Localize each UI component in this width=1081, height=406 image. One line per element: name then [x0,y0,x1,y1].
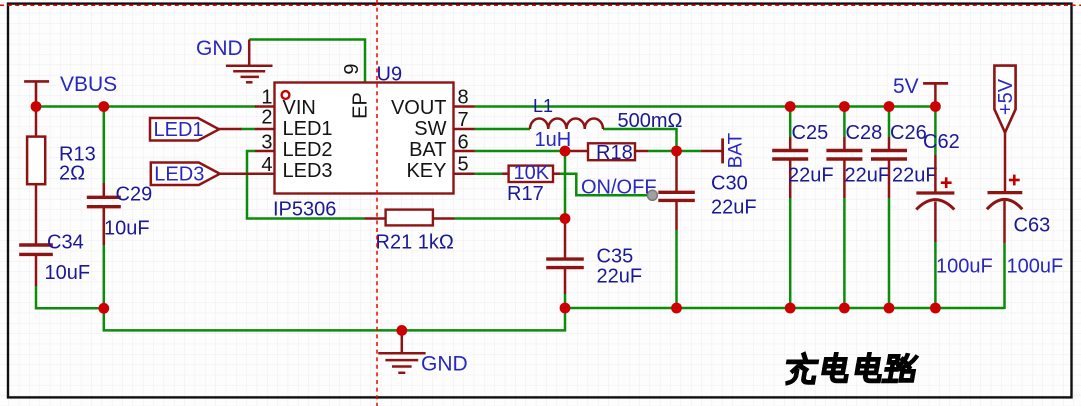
wire BAT node to BAT flag [677,150,702,153]
svg-text:R18: R18 [596,142,633,164]
svg-text:9: 9 [341,63,363,74]
inductor L1 [530,96,603,151]
page boundary dashed line vertical [376,0,378,406]
resistor R17 [502,162,560,205]
node 5V rail C25 [785,101,796,112]
svg-text:22uF: 22uF [788,165,834,187]
svg-text:BAT: BAT [409,139,446,161]
svg-text:C25: C25 [792,122,829,144]
node bus C62 [930,303,941,314]
svg-text:8: 8 [458,87,469,109]
pin 4 stub [255,172,275,175]
node bus C35 [560,303,571,314]
unconnected endpoint ON/OFF [647,190,657,200]
capacitor C29 [87,183,152,245]
pin 3 stub [255,150,275,153]
wire KEY pin to R17 [475,172,503,175]
svg-text:3: 3 [261,132,272,154]
svg-text:GND: GND [421,353,468,376]
wire C26 column [888,107,891,138]
svg-text:R17: R17 [507,183,544,205]
svg-text:6: 6 [458,131,469,153]
svg-text:LED2: LED2 [283,139,333,161]
svg-text:L1: L1 [533,96,553,116]
svg-text:C29: C29 [116,184,153,206]
pin 7 stub [454,128,475,131]
power flag +5V [994,66,1017,193]
wire bottom bus right [565,307,1005,310]
svg-text:2: 2 [261,107,272,129]
node bus C28 [839,303,850,314]
svg-text:C35: C35 [597,246,634,268]
svg-text:GND: GND [196,37,243,60]
page boundary dashed line horizontal [0,4,1081,6]
svg-text:10K: 10K [514,162,550,184]
svg-text:C26: C26 [890,122,927,144]
svg-text:LED1: LED1 [154,119,204,141]
svg-text:+5V: +5V [995,78,1017,115]
wire LED1 to pin2 [241,128,256,131]
svg-text:1: 1 [261,87,272,109]
node VBUS-C29 [98,101,109,112]
node BAT right [671,146,682,157]
wire C35 bottom segment [564,294,567,308]
svg-text:22uF: 22uF [597,266,643,288]
node VBUS-R13 [31,101,42,112]
resistor R13 [27,107,96,245]
capacitor C28 [826,122,890,198]
wire BAT node down (C35 column) [564,151,567,219]
node bus C29 [98,303,109,314]
svg-text:100uF: 100uF [936,256,993,278]
svg-text:C62: C62 [923,131,960,153]
pin 5 stub [454,172,475,175]
pin 6 stub [454,150,475,153]
svg-text:22uF: 22uF [892,165,938,187]
power flag VBUS [24,81,49,106]
node 5V rail C62 [930,101,941,112]
net port flag LED1 [150,118,242,141]
pin 8 stub [454,105,475,108]
svg-text:LED1: LED1 [283,118,333,140]
wire left bus bottom [36,286,565,331]
node 5V rail C28 [839,101,850,112]
svg-text:LED3: LED3 [154,163,204,185]
wire C62 column [934,107,937,156]
pin 2 stub [255,128,275,131]
pin 1 indicator circle [282,91,290,99]
svg-text:500mΩ: 500mΩ [618,110,683,132]
svg-text:C30: C30 [711,172,748,194]
wire VBUS rail [36,105,257,108]
svg-text:C63: C63 [1014,215,1051,237]
node bus C30 [671,303,682,314]
svg-text:EP: EP [350,92,372,119]
resistor R21 [365,210,455,254]
wire C63 bottom riser [1003,243,1006,309]
wire R18 right to BAT node [648,150,677,153]
svg-text:22uF: 22uF [845,165,891,187]
wire C25 column [789,107,792,138]
svg-text:ON/OFF: ON/OFF [581,177,657,199]
capacitor C26 [871,122,938,198]
svg-text:VOUT: VOUT [391,97,447,119]
power flag BAT [701,132,747,168]
node bus C25 [785,303,796,314]
wire C30 bottom segment [675,230,678,308]
node bus C26 [884,303,895,314]
ground symbol top GND [226,40,273,83]
svg-text:VBUS: VBUS [60,73,117,96]
wire BAT pin to R18 [475,150,566,153]
node BAT left [560,146,571,157]
op-amp U9 IP5306 chip body [255,63,475,220]
svg-text:VIN: VIN [283,97,316,119]
wire C29 top segment [103,107,106,184]
char dian 1 [822,354,850,381]
wire L1 right to BAT node [603,129,677,151]
svg-text:IP5306: IP5306 [273,198,336,220]
svg-text:22uF: 22uF [711,196,757,218]
svg-text:BAT: BAT [726,132,747,168]
svg-text:7: 7 [458,109,469,131]
capacitor C34 [19,232,90,287]
resistor R18 [565,142,648,164]
svg-text:C28: C28 [846,122,883,144]
svg-text:KEY: KEY [406,160,446,182]
node 5V rail C26 [884,101,895,112]
wire C28 column [843,107,846,138]
wire R21 right to C35 node [455,217,566,220]
wire C29 bottom segment [103,209,106,308]
node bus GND [396,325,407,336]
polarized capacitor C62 [916,131,992,278]
svg-text:R21 1kΩ: R21 1kΩ [376,232,454,254]
char lu [884,355,916,381]
capacitor C25 [772,122,833,198]
svg-text:C34: C34 [47,232,84,254]
svg-text:LED3: LED3 [283,160,333,182]
wire pin3 down to R21 [247,151,365,219]
title text 充电电路 (hand drawn strokes) [785,354,917,383]
ground symbol bottom GND [378,330,425,372]
capacitor C30 [658,151,756,230]
net port flag LED3 [151,163,255,186]
char dian 2 [856,354,884,381]
svg-text:2Ω: 2Ω [59,163,85,185]
svg-text:4: 4 [261,154,272,176]
polarized capacitor C63 [987,175,1063,278]
svg-text:U9: U9 [377,64,403,86]
svg-text:10uF: 10uF [45,262,91,284]
svg-text:10uF: 10uF [104,218,150,240]
wire R17 to ON/OFF endpoint [560,174,648,196]
svg-text:5: 5 [458,154,469,176]
char chong [785,354,818,383]
node R21-C35 [560,213,571,224]
svg-text:5V: 5V [893,75,919,98]
capacitor C35 [546,221,642,294]
svg-text:SW: SW [414,118,446,140]
pin 1 stub [255,105,275,108]
wire SW to L1 [475,128,531,131]
wire GND top to pin9 [249,40,365,83]
wire 5V rail (VOUT) [475,105,936,108]
svg-text:100uF: 100uF [1007,256,1064,278]
power flag 5V [893,75,948,107]
